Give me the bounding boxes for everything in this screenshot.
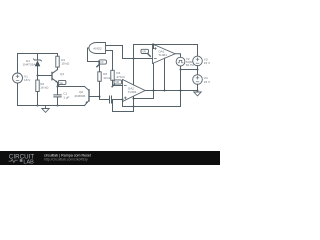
wire V4 bottom xyxy=(197,84,199,90)
node base junction xyxy=(99,96,101,98)
wire base node to C2 xyxy=(100,99,110,101)
node R2 bottom xyxy=(37,105,39,107)
ground G2 xyxy=(194,91,201,96)
zener diode D1 xyxy=(35,61,41,67)
node OA2 vminus xyxy=(133,106,135,108)
svg-text:470 Ω: 470 Ω xyxy=(116,75,125,79)
wire C2 to opamp plus xyxy=(112,99,123,101)
op-amp OA2 xyxy=(123,80,146,102)
flag on Q1 emitter xyxy=(58,80,66,86)
node emitter xyxy=(57,86,59,88)
svg-text:10 kΩ: 10 kΩ xyxy=(61,62,70,66)
wire V2 bottom xyxy=(180,66,182,70)
wire low horizontal xyxy=(123,106,181,108)
transistor Q1 collector diagonal xyxy=(52,70,57,74)
svg-text:TL081: TL081 xyxy=(128,90,137,94)
wire R1 to Q1 collector xyxy=(57,67,59,70)
transistor Q1 emitter xyxy=(52,78,57,82)
wire OA1 Vminus pin xyxy=(164,58,166,90)
wire Q2 base xyxy=(90,96,100,98)
wire top bus left xyxy=(18,53,58,55)
wire bottom bus xyxy=(18,105,85,107)
labels xyxy=(23,46,212,99)
wire emitter node to C1 xyxy=(57,87,59,95)
ground G1 xyxy=(42,106,49,113)
svg-text:VM: VM xyxy=(115,80,119,84)
svg-text:15 V: 15 V xyxy=(204,61,211,65)
wire emitter node to Q2 xyxy=(58,86,85,88)
node 133.5 58.5 xyxy=(133,58,135,60)
op-amp OA1 xyxy=(153,44,176,64)
wire to OA1 minus xyxy=(123,58,153,60)
wire V2 node down xyxy=(180,70,182,107)
resistor R4 xyxy=(111,70,114,80)
svg-text:16 kΩ: 16 kΩ xyxy=(40,86,49,90)
svg-text:18 V: 18 V xyxy=(24,78,31,82)
wire zener branch xyxy=(37,54,39,61)
node C1 bottom xyxy=(57,105,59,107)
svg-text:VC: VC xyxy=(100,60,104,64)
transistor Q2 emitter xyxy=(85,100,90,105)
transistor Q2 bar xyxy=(88,90,90,101)
svg-text:1N4733A: 1N4733A xyxy=(23,63,37,67)
wire top bus left corner xyxy=(133,45,135,59)
svg-text:2N3906: 2N3906 xyxy=(75,94,86,98)
svg-text:10 kΩ: 10 kΩ xyxy=(103,76,112,80)
wire AND top input xyxy=(106,46,123,59)
wire R2 bottom xyxy=(37,92,39,106)
wire AND bottom input xyxy=(106,51,113,71)
svg-text:TL081: TL081 xyxy=(158,53,167,57)
wire V1 bottom xyxy=(17,83,19,106)
wire top bus right xyxy=(134,44,198,46)
svg-text:60 Hz: 60 Hz xyxy=(186,63,195,67)
svg-text:1 μF: 1 μF xyxy=(63,95,69,99)
wire R2 top xyxy=(37,76,39,81)
svg-text:VR: VR xyxy=(142,50,146,54)
wire V3 bottom xyxy=(197,66,199,70)
wire V3 top xyxy=(197,45,199,57)
resistor R2 xyxy=(36,80,39,92)
wire C1 bottom xyxy=(57,97,59,105)
wire R4 bottom to OA2 minus xyxy=(113,80,123,85)
voltage source V2 xyxy=(176,57,185,66)
footer text xyxy=(44,154,91,162)
wire base Q1 xyxy=(38,75,52,77)
circuitlab logo xyxy=(9,154,35,166)
svg-text:http://circuitlab.com/c/kd453y: http://circuitlab.com/c/kd453y xyxy=(44,158,88,162)
wire vertical 153.5 xyxy=(153,64,155,99)
wire OA2 Vplus pin xyxy=(133,59,135,86)
wire Q1 emitter down xyxy=(57,83,59,87)
voltage source V4 xyxy=(193,75,203,85)
wire mid bus V2 V3 xyxy=(181,69,198,71)
voltage source V3 xyxy=(193,56,203,66)
wire OA2 output bus xyxy=(145,90,197,92)
node plus input xyxy=(122,99,124,101)
footer bar xyxy=(0,151,220,165)
wire 98.5 horizontal xyxy=(134,98,154,100)
resistor R3 xyxy=(98,72,101,82)
flag at OA1 minus xyxy=(141,49,149,53)
wire R1 top xyxy=(57,54,59,57)
transistor Q2 collector diagonal xyxy=(85,87,90,91)
wire Q2 emitter to bus xyxy=(83,105,85,107)
wire V1 top xyxy=(17,54,19,74)
capacitor C1 xyxy=(54,95,61,97)
svg-text:15 V: 15 V xyxy=(204,80,211,84)
svg-text:LAB: LAB xyxy=(23,159,34,165)
and gate AND2 xyxy=(89,43,106,54)
wire OA1 output xyxy=(175,54,180,57)
svg-text:Q1: Q1 xyxy=(60,72,64,76)
wire plus node down xyxy=(122,100,124,107)
svg-text:AND2: AND2 xyxy=(93,46,102,50)
flag at R4 bottom xyxy=(114,80,122,84)
resistor R1 xyxy=(56,56,59,67)
wire V4 top xyxy=(197,70,199,75)
wire AND2 output xyxy=(88,48,100,72)
wire loop below C2 xyxy=(113,100,134,112)
wire OA1 top input xyxy=(153,45,154,49)
flag on AND output xyxy=(99,60,107,64)
voltage source V1 xyxy=(13,73,23,83)
node zener R2 junction xyxy=(37,75,39,77)
transistor Q1 bar xyxy=(51,72,53,79)
wire R3 bottom to base node xyxy=(99,81,101,99)
capacitor C2 xyxy=(110,96,112,103)
wire OA2 Vminus pin xyxy=(133,97,135,112)
wire zener to node xyxy=(37,67,39,76)
